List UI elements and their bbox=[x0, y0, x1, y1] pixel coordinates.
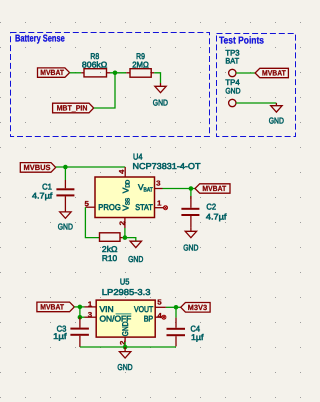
R9 left lead bbox=[126, 72, 130, 74]
svg-text:MBT_PIN: MBT_PIN bbox=[57, 104, 88, 113]
U4 pin 3 (VBAT) stub bbox=[155, 188, 163, 190]
wire junction to C1 bbox=[64, 167, 66, 180]
svg-text:LP2985-3.3: LP2985-3.3 bbox=[102, 287, 151, 297]
group box Test Points (dashed) bbox=[217, 34, 296, 137]
svg-text:STAT: STAT bbox=[135, 202, 153, 212]
svg-text:NCP73831-4-OT: NCP73831-4-OT bbox=[133, 161, 201, 171]
svg-text:GND: GND bbox=[58, 222, 73, 232]
test point TP4 pad bbox=[229, 99, 236, 106]
junction node VBAT/C2 bbox=[189, 186, 194, 191]
wire U4 VBAT to MVBAT bbox=[163, 188, 196, 190]
svg-text:1: 1 bbox=[157, 199, 161, 208]
svg-text:5: 5 bbox=[157, 297, 161, 306]
junction node R8/R9/MBT_PIN bbox=[113, 71, 118, 76]
resistor R9 bbox=[130, 51, 151, 77]
svg-text:GND: GND bbox=[128, 254, 143, 264]
svg-text:MVBAT: MVBAT bbox=[262, 69, 286, 78]
wire junction to C2 bbox=[190, 189, 192, 200]
wire TP4 to ground bbox=[236, 102, 276, 104]
svg-text:Battery Sense: Battery Sense bbox=[15, 34, 65, 45]
svg-text:MVBAT: MVBAT bbox=[40, 68, 64, 77]
wire MVBAT to U5 VIN bbox=[74, 306, 84, 308]
U5 pin 1 (VIN) stub bbox=[85, 306, 97, 308]
svg-text:BP: BP bbox=[144, 313, 154, 323]
IC U5 body bbox=[96, 300, 155, 337]
svg-text:4.7µf: 4.7µf bbox=[32, 191, 53, 201]
capacitor C2 bbox=[181, 196, 227, 227]
svg-text:MVBAT: MVBAT bbox=[202, 184, 226, 193]
wire junction down to pin3 row bbox=[79, 307, 81, 317]
svg-text:806kΩ: 806kΩ bbox=[82, 59, 107, 69]
svg-text:BAT: BAT bbox=[225, 57, 239, 66]
capacitor C3 bbox=[53, 317, 89, 347]
junction node MVBUS/C1 bbox=[63, 165, 68, 170]
svg-text:GND: GND bbox=[183, 243, 198, 253]
global label MVBUS bbox=[20, 163, 55, 173]
svg-text:MVBAT: MVBAT bbox=[40, 303, 64, 312]
svg-text:R10: R10 bbox=[102, 253, 118, 263]
svg-text:M3V3: M3V3 bbox=[188, 303, 208, 312]
svg-text:3: 3 bbox=[156, 179, 160, 188]
svg-text:5: 5 bbox=[85, 199, 89, 208]
resistor R8 bbox=[82, 51, 107, 77]
capacitor C4 bbox=[167, 318, 205, 347]
svg-text:PROG: PROG bbox=[98, 202, 121, 212]
svg-text:1: 1 bbox=[88, 300, 92, 309]
svg-text:GND: GND bbox=[269, 116, 284, 126]
svg-text:4: 4 bbox=[117, 170, 126, 174]
svg-text:1µf: 1µf bbox=[53, 331, 67, 341]
R8 right lead bbox=[107, 72, 111, 74]
wire M3V3 junction down to C4 bbox=[175, 307, 177, 317]
svg-text:Test Points: Test Points bbox=[219, 36, 264, 47]
ground symbol (test points) bbox=[269, 103, 284, 126]
global label MVBAT (U4 output) bbox=[195, 184, 230, 193]
ground symbol (U4/R10) bbox=[128, 241, 143, 264]
wire VOUT to M3V3 bbox=[166, 306, 181, 308]
wire R8 to R9 bbox=[110, 72, 126, 74]
U4 pin 5 (PROG) stub bbox=[85, 206, 95, 208]
global label MVBAT (test point) bbox=[255, 68, 288, 77]
svg-text:GND: GND bbox=[117, 362, 132, 372]
R8 left lead bbox=[81, 72, 84, 74]
wire PROG to R10 bbox=[85, 207, 99, 237]
svg-text:GND: GND bbox=[225, 87, 240, 96]
wire U5 ground rail bbox=[80, 346, 176, 348]
wire R9 to GND corner bbox=[154, 73, 160, 83]
IC U4 body bbox=[95, 177, 155, 218]
global label MVBAT (battery sense) bbox=[38, 68, 70, 77]
ground symbol (battery sense) bbox=[153, 83, 168, 108]
U5 pin 3 (ON/OFF) stub bbox=[85, 316, 97, 318]
test point TP3 pad bbox=[229, 69, 236, 76]
junction node pin3/C3 bbox=[78, 315, 83, 320]
junction node rail/pin2 bbox=[123, 345, 128, 350]
junction node VOUT/C4 bbox=[174, 305, 179, 310]
svg-text:U5: U5 bbox=[120, 277, 130, 287]
svg-text:GND: GND bbox=[120, 321, 130, 336]
resistor R10 bbox=[100, 233, 123, 263]
U5 pin 5 (VOUT) stub bbox=[155, 306, 166, 308]
svg-text:2: 2 bbox=[118, 221, 127, 225]
svg-text:C2: C2 bbox=[206, 202, 216, 212]
svg-text:U4: U4 bbox=[133, 151, 143, 161]
junction node MVBAT/pin1 bbox=[78, 305, 83, 310]
wire TP3 to MVBAT bbox=[236, 72, 255, 74]
capacitor C1 bbox=[32, 180, 74, 208]
svg-text:3: 3 bbox=[88, 310, 92, 319]
group box Battery Sense (dashed) bbox=[11, 33, 210, 137]
global label M3V3 bbox=[181, 303, 210, 313]
wire MVBUS to U4 VDD pin bbox=[56, 166, 126, 168]
svg-text:GND: GND bbox=[153, 98, 168, 108]
wire MVBAT to R8 bbox=[70, 72, 82, 74]
ground symbol (C1) bbox=[58, 208, 73, 232]
R9 right lead bbox=[151, 72, 154, 74]
svg-text:1µf: 1µf bbox=[191, 332, 204, 342]
wire pin2 to rail bbox=[124, 342, 126, 347]
svg-text:4: 4 bbox=[157, 311, 161, 320]
global label MBT_PIN bbox=[53, 103, 94, 113]
U4 pin 4 (VDD) stub bbox=[124, 167, 126, 177]
wire VSS to junction bbox=[124, 228, 126, 238]
U4 pin 2 (VSS) stub bbox=[124, 218, 126, 229]
svg-text:MVBUS: MVBUS bbox=[24, 163, 51, 172]
svg-text:4.7µf: 4.7µf bbox=[206, 211, 227, 221]
ground symbol (C2) bbox=[183, 227, 198, 252]
ground symbol (U5 rail) bbox=[117, 347, 132, 372]
svg-text:2MΩ: 2MΩ bbox=[132, 59, 149, 69]
junction node VSS/R10/GND bbox=[123, 235, 128, 240]
wire junction to ground bbox=[125, 238, 136, 242]
U5 pin 2 (GND) stub bbox=[124, 337, 126, 342]
unconnected pin marker (U5 BP) bbox=[162, 315, 166, 319]
wire MBT_PIN to junction bbox=[94, 73, 115, 108]
unconnected pin marker (U4 STAT) bbox=[164, 206, 168, 210]
wire junction to U5 ON/OFF pin bbox=[80, 316, 85, 318]
U5 pin 4 (BP) stub bbox=[155, 316, 162, 318]
U4 pin 1 (STAT) stub bbox=[155, 207, 164, 209]
global label MVBAT (U5 input) bbox=[37, 302, 74, 312]
